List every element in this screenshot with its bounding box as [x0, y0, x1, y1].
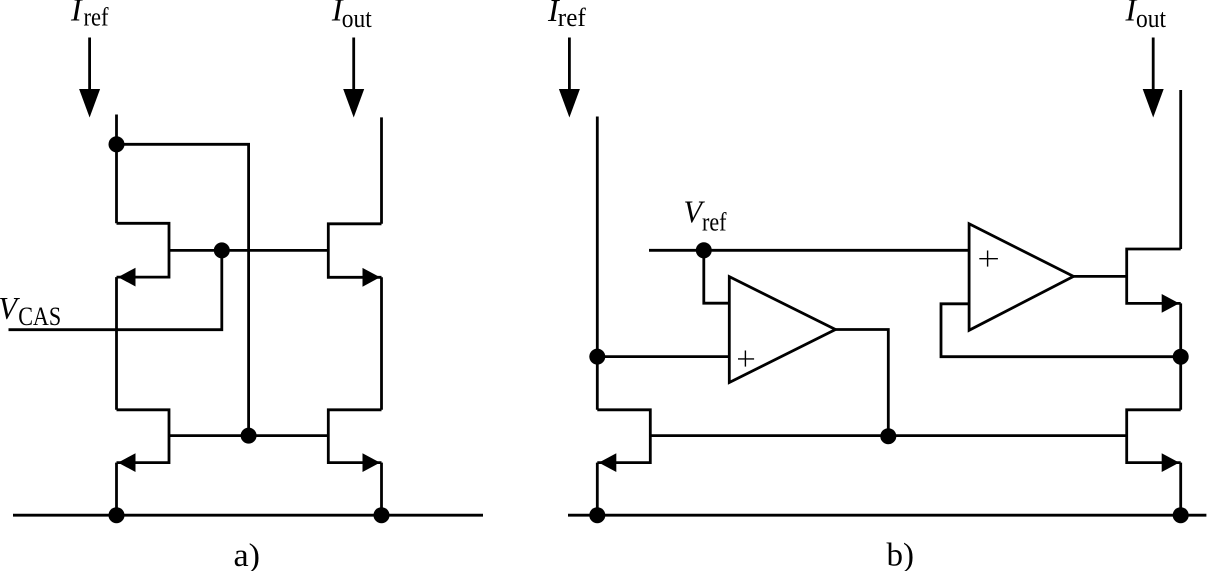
wire I_out drain lead (b): [1179, 90, 1182, 249]
wire bottom gate line (a): [169, 434, 328, 437]
wire left source lead (a): [115, 463, 118, 516]
node dot diode-connect top (a): [109, 136, 125, 152]
transistor Q7 output mirror (b): [1127, 410, 1181, 472]
current arrow I_out (circuit a): [343, 38, 364, 118]
wire I_ref drain lead (a): [115, 115, 118, 224]
current arrow I_out (circuit b): [1143, 38, 1164, 118]
label I_ref (circuit a): [70, 0, 109, 31]
node dot cascode gate (a): [214, 242, 230, 258]
current arrow I_ref (circuit b): [559, 38, 580, 118]
transistor Q1 top-left cascode (a): [117, 223, 170, 286]
wire bottom gate line (b): [650, 434, 1126, 437]
node dot bottom gate (a): [241, 428, 257, 444]
transistor Q4 bottom-right mirror (a): [328, 410, 381, 472]
transistor Q3 top-right cascode (a): [328, 224, 381, 287]
wire op-amp U2 output to cascode gate (b): [1074, 275, 1127, 278]
label V_ref (b): [684, 194, 727, 237]
wire I_out drain lead (a): [380, 117, 383, 223]
transistor Q6 output cascode (b): [1127, 249, 1181, 313]
op-amp U1 (b): [729, 277, 835, 383]
wire right source lead (a): [380, 463, 383, 516]
ground rail (b): [568, 514, 1206, 517]
node dot input sense (b): [589, 349, 605, 365]
wire V_CAS (a): [9, 250, 222, 329]
label V_CAS: [0, 290, 61, 331]
wire left source lead (b): [596, 463, 599, 516]
ground rail (a): [13, 514, 483, 517]
wire right source lead (b): [1179, 463, 1182, 516]
op-amp U2 (b): [969, 224, 1073, 330]
svg-text:I: I: [70, 0, 83, 28]
wire input column (b): [596, 117, 599, 410]
transistor Q5 input mirror (b): [597, 410, 650, 472]
wire op-amp U1 output to bottom gate line (b): [836, 330, 889, 436]
svg-text:ref: ref: [702, 208, 727, 237]
wire cascode gate line (a): [169, 249, 328, 252]
wire mirror link top node to bottom gate line (a): [117, 144, 249, 435]
wire input node to op-amp plus input (b): [597, 355, 729, 358]
wire left mid column (a): [115, 277, 118, 410]
svg-text:a): a): [234, 538, 261, 571]
label I_out (circuit b): [1125, 0, 1167, 33]
wire right mid column (a): [380, 277, 383, 410]
svg-text:out: out: [342, 4, 373, 33]
node dot V_ref (b): [696, 242, 712, 258]
node dot rail left (a): [109, 507, 125, 523]
svg-text:b): b): [887, 538, 915, 571]
node dot feedback sense (b): [1173, 349, 1189, 365]
node dot rail right (a): [374, 507, 390, 523]
wire V_ref to op-amp U1 minus input (b): [704, 250, 730, 303]
wire op-amp U2 minus feedback (b): [941, 304, 1181, 357]
node dot gate line (b): [880, 428, 896, 444]
wire V_ref line (b): [649, 249, 969, 252]
svg-text:ref: ref: [558, 3, 586, 32]
wire right mid column (b): [1179, 303, 1182, 409]
svg-text:CAS: CAS: [18, 302, 61, 331]
label I_out (circuit a): [331, 0, 373, 33]
node dot rail right (b): [1173, 507, 1189, 523]
label I_ref (circuit b): [547, 0, 586, 32]
svg-text:ref: ref: [84, 2, 109, 31]
svg-text:out: out: [1136, 4, 1167, 33]
node dot rail left (b): [589, 507, 605, 523]
transistor Q2 bottom-left mirror (a): [117, 410, 170, 472]
current arrow I_ref (circuit a): [79, 38, 100, 118]
